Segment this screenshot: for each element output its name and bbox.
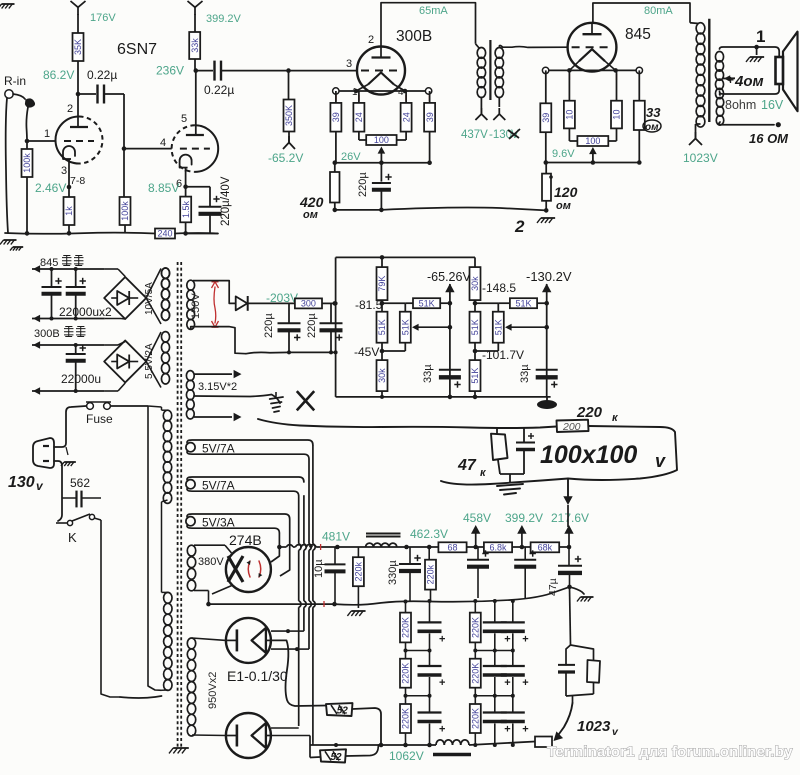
- svg-text:420: 420: [299, 194, 324, 210]
- svg-text:33µ: 33µ: [519, 364, 531, 383]
- svg-text:22000ux2: 22000ux2: [59, 305, 112, 319]
- svg-text:1: 1: [44, 128, 50, 140]
- svg-text:274B: 274B: [229, 532, 262, 548]
- svg-text:437V: 437V: [461, 129, 488, 141]
- svg-text:33: 33: [646, 105, 661, 120]
- svg-text:Fuse: Fuse: [86, 412, 113, 426]
- svg-text:ом: ом: [645, 122, 659, 133]
- svg-text:86.2V: 86.2V: [43, 68, 74, 82]
- svg-text:30k: 30k: [470, 276, 480, 291]
- svg-text:+: +: [522, 724, 528, 736]
- svg-text:80mA: 80mA: [644, 5, 673, 17]
- svg-text:10µ: 10µ: [313, 559, 325, 578]
- svg-text:399.2V: 399.2V: [206, 13, 242, 25]
- svg-text:5: 5: [181, 113, 187, 125]
- svg-text:24: 24: [354, 112, 364, 122]
- svg-text:+: +: [504, 677, 510, 689]
- svg-text:+: +: [439, 724, 445, 736]
- svg-text:K: K: [68, 530, 77, 545]
- svg-text:33µ: 33µ: [422, 364, 434, 383]
- svg-text:-101.7V: -101.7V: [482, 348, 524, 362]
- svg-text:65mA: 65mA: [419, 5, 448, 17]
- svg-text:2: 2: [368, 34, 374, 46]
- svg-text:-45V: -45V: [354, 345, 379, 359]
- svg-text:4: 4: [160, 137, 166, 149]
- svg-text:8ohm: 8ohm: [725, 98, 756, 112]
- svg-text:4ом: 4ом: [734, 73, 764, 90]
- svg-text:26V: 26V: [341, 151, 361, 163]
- svg-text:7-8: 7-8: [70, 175, 85, 187]
- svg-text:220k: 220k: [354, 561, 364, 581]
- svg-text:+: +: [439, 677, 445, 689]
- svg-text:3: 3: [61, 165, 67, 177]
- svg-text:5V/3A: 5V/3A: [202, 516, 235, 530]
- svg-text:ом: ом: [303, 209, 318, 221]
- svg-text:16 OM: 16 OM: [749, 131, 789, 146]
- svg-text:176V: 176V: [90, 12, 116, 24]
- svg-text:220K: 220K: [401, 708, 411, 729]
- svg-text:35K: 35K: [73, 39, 83, 55]
- svg-text:380V: 380V: [198, 556, 224, 568]
- svg-text:6SN7: 6SN7: [117, 41, 157, 58]
- svg-text:2.46V: 2.46V: [35, 181, 66, 195]
- svg-text:51K: 51K: [419, 298, 435, 308]
- svg-text:-130.2V: -130.2V: [526, 269, 572, 284]
- svg-text:R-in: R-in: [4, 74, 26, 88]
- svg-text:16V: 16V: [761, 98, 784, 112]
- svg-text:-65.26V: -65.26V: [427, 270, 471, 284]
- svg-text:100x100: 100x100: [540, 441, 637, 469]
- svg-text:30k: 30k: [377, 368, 387, 383]
- svg-text:236V: 236V: [156, 64, 184, 78]
- svg-text:+: +: [522, 633, 528, 645]
- svg-text:52: 52: [330, 752, 342, 763]
- svg-text:1k: 1k: [64, 206, 74, 216]
- svg-text:5V/7A: 5V/7A: [202, 479, 235, 493]
- svg-text:220µ: 220µ: [306, 313, 318, 338]
- svg-text:+: +: [522, 677, 528, 689]
- svg-text:-65.2V: -65.2V: [268, 151, 303, 165]
- svg-text:240: 240: [157, 229, 172, 239]
- svg-text:9.6V: 9.6V: [552, 148, 575, 160]
- svg-text:150V: 150V: [190, 293, 202, 319]
- svg-text:3.15V*2: 3.15V*2: [198, 381, 237, 393]
- svg-text:220K: 220K: [471, 708, 481, 729]
- svg-text:51K: 51K: [515, 298, 531, 308]
- svg-text:79K: 79K: [377, 276, 387, 292]
- svg-text:1023: 1023: [577, 718, 611, 735]
- svg-text:52: 52: [337, 706, 349, 717]
- svg-text:10: 10: [612, 110, 622, 120]
- svg-text:100k: 100k: [120, 201, 130, 221]
- svg-text:+: +: [439, 633, 445, 645]
- svg-text:3: 3: [346, 58, 352, 70]
- svg-text:Terminator1 для forum.onliner.: Terminator1 для forum.onliner.by: [547, 744, 793, 761]
- svg-text:39: 39: [425, 112, 435, 122]
- svg-text:ом: ом: [556, 200, 571, 212]
- svg-text:68: 68: [447, 543, 457, 553]
- svg-text:330µ: 330µ: [387, 560, 399, 585]
- svg-text:220K: 220K: [401, 617, 411, 638]
- svg-text:220K: 220K: [471, 663, 481, 684]
- svg-text:39: 39: [331, 112, 341, 122]
- svg-text:+: +: [727, 73, 734, 87]
- svg-text:350K: 350K: [284, 105, 294, 126]
- svg-text:E1-0.1/30: E1-0.1/30: [227, 668, 288, 684]
- svg-text:v: v: [655, 451, 666, 471]
- svg-text:481V: 481V: [322, 530, 350, 544]
- svg-text:0.22µ: 0.22µ: [204, 83, 234, 97]
- svg-text:51K: 51K: [401, 319, 411, 335]
- svg-text:220K: 220K: [471, 617, 481, 638]
- svg-text:845: 845: [625, 26, 651, 43]
- svg-text:1023V: 1023V: [683, 151, 718, 165]
- svg-text:220: 220: [576, 404, 603, 421]
- svg-text:1062V: 1062V: [389, 749, 424, 763]
- svg-text:220k: 220k: [426, 564, 436, 584]
- svg-text:8.85V: 8.85V: [148, 181, 179, 195]
- svg-text:1: 1: [756, 27, 765, 46]
- svg-text:300: 300: [301, 299, 316, 309]
- svg-text:+: +: [504, 633, 510, 645]
- svg-text:1.5k: 1.5k: [181, 200, 191, 218]
- svg-text:-81.5: -81.5: [355, 298, 383, 312]
- svg-text:458V: 458V: [463, 511, 491, 525]
- svg-text:33k: 33k: [190, 38, 200, 53]
- svg-text:68k: 68k: [538, 543, 553, 553]
- svg-text:300B: 300B: [396, 28, 432, 45]
- svg-text:24: 24: [401, 112, 411, 122]
- svg-text:51K: 51K: [377, 319, 387, 335]
- svg-text:51K: 51K: [494, 319, 504, 335]
- svg-text:-148.5: -148.5: [482, 281, 516, 295]
- svg-text:462.3V: 462.3V: [410, 527, 448, 541]
- svg-text:220µ/40V: 220µ/40V: [220, 176, 232, 226]
- svg-text:562: 562: [70, 476, 90, 490]
- svg-text:100: 100: [374, 135, 389, 145]
- svg-text:950Vx2: 950Vx2: [207, 672, 219, 709]
- svg-text:39: 39: [541, 113, 551, 123]
- svg-text:22000u: 22000u: [61, 372, 101, 386]
- svg-text:845: 845: [40, 257, 58, 269]
- svg-text:100k: 100k: [22, 153, 32, 173]
- svg-text:200: 200: [562, 421, 581, 433]
- svg-text:2: 2: [67, 103, 73, 115]
- svg-text:220µ: 220µ: [357, 172, 369, 197]
- svg-text:120: 120: [554, 184, 578, 200]
- svg-text:2: 2: [514, 217, 525, 236]
- svg-text:+: +: [504, 724, 510, 736]
- svg-text:220K: 220K: [401, 663, 411, 684]
- svg-text:130: 130: [8, 474, 35, 491]
- svg-text:5V/7A: 5V/7A: [202, 442, 235, 456]
- svg-text:6.8k: 6.8k: [489, 543, 507, 553]
- svg-text:10: 10: [565, 110, 575, 120]
- svg-text:217.6V: 217.6V: [551, 511, 589, 525]
- svg-text:220µ: 220µ: [263, 313, 275, 338]
- svg-text:51K: 51K: [470, 368, 480, 384]
- svg-text:51K: 51K: [470, 319, 480, 335]
- svg-text:47: 47: [457, 457, 477, 474]
- svg-text:100: 100: [585, 136, 600, 146]
- svg-text:0.22µ: 0.22µ: [87, 68, 117, 82]
- svg-text:4: 4: [398, 87, 404, 98]
- svg-text:399.2V: 399.2V: [505, 511, 543, 525]
- svg-text:300B: 300B: [34, 328, 60, 340]
